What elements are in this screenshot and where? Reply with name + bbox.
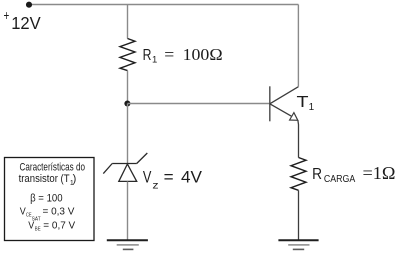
svg-text:BE: BE (35, 227, 41, 233)
svg-text:+: + (4, 7, 10, 23)
transistor T1 emitter open arrowhead (290, 113, 298, 121)
label box VBE line (28, 220, 75, 232)
wire RCARGA to ground (298, 190, 300, 240)
ground right (278, 240, 318, 249)
label R1 = 100Ω (143, 45, 223, 66)
svg-text:R: R (312, 166, 322, 183)
wire top rail to R1 (127, 5, 129, 39)
svg-text:z: z (152, 180, 158, 192)
transistor T1 base bar (269, 86, 271, 121)
wire emitter to RCARGA (297, 120, 300, 157)
svg-text:=: = (164, 45, 174, 64)
svg-text:1: 1 (152, 55, 157, 66)
ground left (107, 240, 148, 249)
node supply terminal dot (26, 2, 32, 8)
label RCARGA = 1Ω (312, 163, 395, 185)
label +12V (4, 7, 42, 33)
svg-text:R: R (143, 47, 152, 64)
svg-text:Características do: Características do (20, 162, 86, 174)
box transistor characteristics (5, 158, 95, 241)
transistor T1 emitter lead (270, 104, 291, 116)
svg-text:=: = (164, 167, 174, 186)
svg-text:transistor (T: transistor (T (19, 173, 70, 185)
resistor R1 (120, 39, 135, 71)
svg-text:V: V (28, 220, 34, 231)
label VZ = 4V (143, 167, 203, 191)
svg-text:1: 1 (309, 102, 315, 113)
svg-text:CARGA: CARGA (324, 174, 356, 185)
svg-text:T: T (297, 94, 309, 111)
label box line 2 (19, 173, 77, 187)
svg-text:=1Ω: =1Ω (363, 163, 395, 183)
resistor RCARGA (291, 158, 306, 191)
wire top rail (29, 4, 298, 6)
svg-text:= 0,3 V: = 0,3 V (43, 207, 75, 218)
svg-text:β = 100: β = 100 (30, 192, 63, 204)
label T1 (297, 94, 315, 113)
zener diode VZ anode triangle (119, 164, 137, 181)
svg-text:12V: 12V (11, 13, 41, 33)
svg-text:4V: 4V (181, 167, 203, 186)
label box VCEsat line (20, 207, 75, 223)
wire R1 to node (127, 71, 129, 104)
svg-text:= 0,7 V: = 0,7 V (43, 220, 75, 231)
wire zener to ground (127, 181, 129, 240)
svg-text:): ) (73, 173, 77, 185)
svg-text:V: V (143, 167, 152, 186)
zener diode VZ cathode bar with bent ends (103, 153, 147, 174)
wire base (node to T1) (128, 103, 270, 105)
wire node to zener (127, 104, 129, 164)
wire collector to top rail (297, 5, 299, 87)
transistor T1 collector lead (270, 87, 299, 104)
node junction dot (124, 100, 130, 106)
svg-text:100Ω: 100Ω (183, 45, 223, 64)
